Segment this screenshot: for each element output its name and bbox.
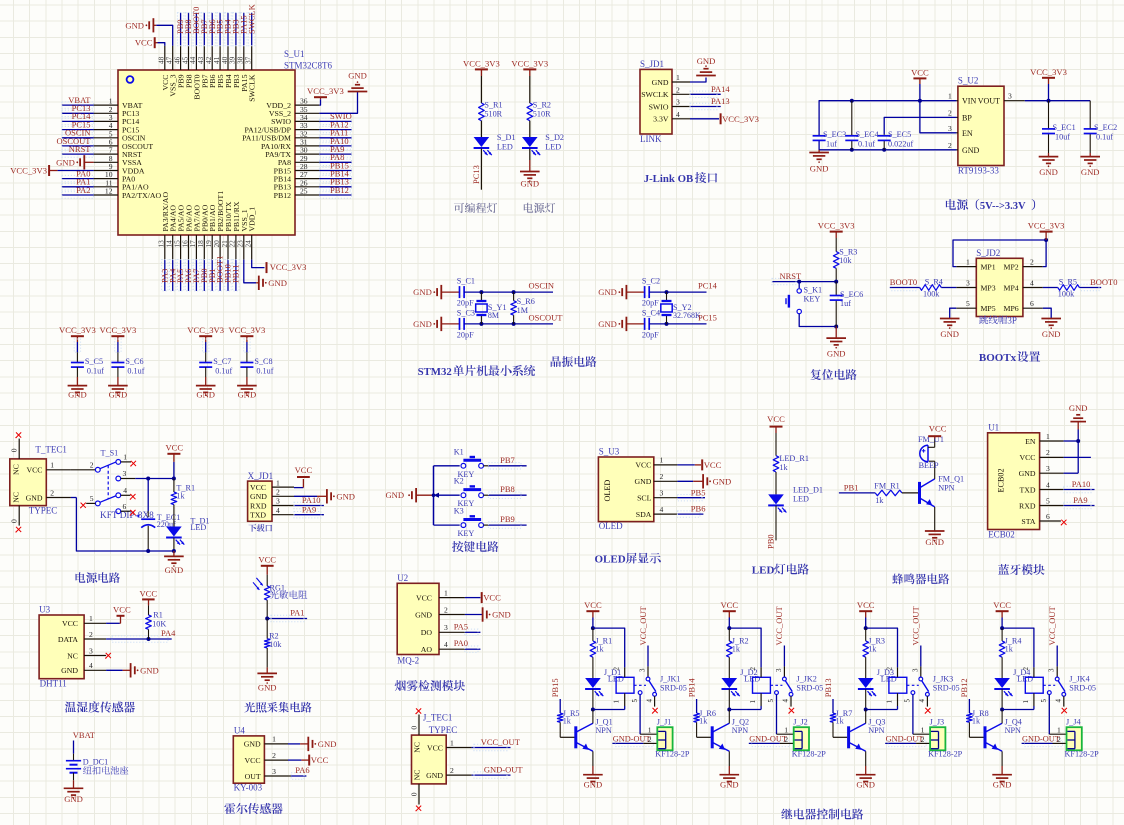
- svg-text:2: 2: [276, 488, 280, 497]
- svg-text:VCC_3V3: VCC_3V3: [187, 325, 224, 335]
- wire VCC to switch pin2: [71, 469, 95, 471]
- wire node to J_R4: [1001, 628, 1003, 641]
- power VCC_3V3 (S_R1 chain): [463, 58, 500, 69]
- wire collector (ch4): [1001, 710, 1003, 724]
- net label PA4: [167, 268, 177, 283]
- svg-text:VCC: VCC: [584, 600, 602, 610]
- svg-text:D_DC1: D_DC1: [83, 758, 108, 767]
- resistor LED_R1 1k: [773, 454, 809, 472]
- wire LED_R1 to LED_D1: [775, 472, 777, 494]
- net label PB15 (vertical, ch1): [550, 678, 560, 697]
- pin 45 PB8 (top): [180, 46, 193, 88]
- wire net PB5 (top): [217, 13, 223, 46]
- net label PB14: [330, 168, 350, 178]
- ground GND (U1 top): [1069, 403, 1088, 430]
- svg-text:3: 3: [272, 767, 276, 776]
- comment KY-003: [234, 783, 263, 793]
- svg-text:3: 3: [948, 124, 952, 133]
- net label PB9: [500, 514, 515, 524]
- svg-text:NPN: NPN: [595, 726, 611, 735]
- svg-text:12: 12: [105, 187, 113, 196]
- svg-text:VCC_3V3: VCC_3V3: [818, 221, 855, 231]
- pin 6 STA (U1): [1021, 512, 1061, 526]
- svg-text:3: 3: [89, 646, 93, 655]
- svg-text:MP1: MP1: [981, 263, 996, 272]
- svg-text:VCC: VCC: [993, 600, 1011, 610]
- svg-text:ECB02: ECB02: [988, 530, 1015, 540]
- pin 0 top (J_TEC1): [409, 715, 419, 736]
- power VCC_3V3 (VOUT): [1030, 67, 1067, 101]
- net label VCC_OUT (ch3): [911, 605, 921, 645]
- net label PA13: [711, 96, 730, 106]
- no-connect X (T_TEC1 top): [15, 432, 21, 438]
- svg-text:S_C6: S_C6: [125, 357, 143, 366]
- svg-text:MQ-2: MQ-2: [397, 656, 419, 666]
- net label GND-OUT (ch2): [749, 735, 787, 744]
- net label PB1: [844, 482, 859, 492]
- wire VCC_3V3 to S_C8: [244, 336, 250, 362]
- power VCC (T circuit): [165, 443, 183, 479]
- svg-text:VCC_3V3: VCC_3V3: [307, 86, 344, 96]
- wire MP6 to GND: [1043, 308, 1051, 318]
- power VCC_3V3 (reset): [818, 221, 855, 232]
- designator S_U3: [599, 447, 620, 457]
- wire VCC to node (relay ch4): [1000, 611, 1004, 630]
- net label VBAT (battery): [73, 730, 96, 740]
- wire net PB6: [677, 511, 703, 517]
- designator U2 (MQ-2): [397, 573, 408, 583]
- svg-text:NC: NC: [413, 770, 422, 781]
- wire PB14 to J_R6: [696, 699, 698, 713]
- pin 25 PB12 (right): [274, 187, 320, 200]
- svg-text:3: 3: [911, 668, 919, 672]
- capacitor T_EC1 220uf: [137, 479, 181, 552]
- ground GND (buzzer): [925, 531, 945, 547]
- svg-text:10K: 10K: [152, 619, 166, 628]
- svg-text:K1: K1: [454, 447, 464, 456]
- svg-text:1: 1: [885, 700, 893, 704]
- svg-text:VCC: VCC: [113, 604, 131, 614]
- svg-text:1uf: 1uf: [826, 140, 837, 149]
- power VCC_3V3 (S_C7): [187, 325, 224, 336]
- battery D_DC1: [66, 758, 128, 775]
- wire coil bottom to node (ch4): [1002, 706, 1034, 710]
- svg-text:6: 6: [123, 502, 127, 511]
- svg-text:S_R4: S_R4: [925, 278, 943, 287]
- svg-text:OSCIN: OSCIN: [529, 281, 555, 291]
- relay J_JK4 switch: [1040, 666, 1096, 702]
- ground GND (S_C3): [413, 317, 459, 331]
- push button K1 KEY: [454, 447, 484, 479]
- pin 10 PA0 (left): [94, 170, 136, 183]
- pins MP1/MP2 (S_JD2): [956, 258, 1043, 272]
- wire VCC to R1: [148, 599, 150, 615]
- svg-text:3: 3: [444, 623, 448, 632]
- svg-text:1k: 1k: [1005, 645, 1014, 654]
- svg-text:S_U1: S_U1: [284, 49, 305, 59]
- pin 4 GND (U3 DHT11): [61, 661, 106, 675]
- comment STM32C8T6: [284, 61, 333, 71]
- svg-text:MP3: MP3: [981, 284, 996, 293]
- svg-text:NRST: NRST: [780, 271, 803, 281]
- push button K3 KEY: [454, 507, 484, 539]
- svg-text:VCC_OUT: VCC_OUT: [638, 605, 648, 645]
- svg-text:3P: 3P: [1007, 315, 1017, 325]
- svg-text:GND: GND: [258, 683, 277, 693]
- svg-text:STM32: STM32: [418, 366, 452, 378]
- wire net PA9 (right): [319, 151, 351, 157]
- svg-text:VCC_3V3: VCC_3V3: [722, 114, 759, 124]
- svg-text:VCC: VCC: [704, 460, 722, 470]
- no-connect X (T_TEC1 bottom): [15, 527, 21, 533]
- pin 1 GND (U4 KY-003): [244, 735, 288, 749]
- net label OSCIN: [529, 281, 555, 291]
- designator J_TEC1: [423, 713, 453, 723]
- svg-text:1: 1: [676, 73, 680, 82]
- net label SWIO: [330, 111, 352, 121]
- svg-text:5: 5: [904, 699, 912, 703]
- pin BP (S_U2): [948, 108, 972, 122]
- net label OSCOUT: [56, 136, 91, 146]
- ground GND (S_U3): [703, 474, 731, 488]
- svg-text:2: 2: [948, 141, 952, 150]
- pin 43 PB7 (top): [196, 46, 209, 88]
- no-connect X (STA): [1061, 520, 1067, 526]
- wire J_R1 to J_D1: [592, 657, 594, 678]
- wire VCC_3V3 to S_R1: [480, 69, 482, 103]
- resistor J_R2 1k: [727, 637, 749, 658]
- svg-text:S_C3: S_C3: [457, 308, 475, 317]
- svg-text:1: 1: [276, 478, 280, 487]
- svg-text:100k: 100k: [1058, 290, 1075, 299]
- svg-text:1: 1: [921, 726, 925, 735]
- svg-text:3: 3: [1048, 668, 1056, 672]
- pin 4 PC15 (left): [94, 121, 140, 134]
- svg-text:VCC: VCC: [26, 466, 42, 475]
- svg-text:SWCLK: SWCLK: [641, 90, 669, 99]
- pin 1 VCC (U2 MQ-2): [416, 588, 465, 602]
- svg-text:PB15: PB15: [550, 678, 560, 697]
- wire R2 to GND: [266, 648, 268, 673]
- pin 33 PA12/USB/DP (right): [244, 121, 319, 134]
- pin 20 PB2/BOOT1 (bottom): [212, 191, 225, 260]
- designator U4 (KY-003): [234, 725, 245, 735]
- svg-text:FM_R1: FM_R1: [874, 482, 899, 491]
- svg-text:6: 6: [1046, 512, 1050, 521]
- svg-text:VCC: VCC: [1019, 453, 1035, 462]
- svg-text:2: 2: [89, 630, 93, 639]
- svg-text:DO: DO: [421, 628, 433, 637]
- wire S_EC4 leads: [851, 101, 853, 150]
- pin 16 PA6/AO (bottom): [180, 205, 193, 260]
- pin 2 SWCLK (S_JD1): [641, 85, 690, 99]
- wire J_D3 to collector node: [864, 689, 868, 711]
- svg-text:NC: NC: [67, 651, 78, 660]
- svg-text:GND: GND: [697, 56, 716, 66]
- svg-text:GND: GND: [140, 665, 159, 675]
- pin EN (S_U2): [948, 124, 973, 138]
- resistor J_R4 1k: [999, 637, 1021, 658]
- svg-text:OLED: OLED: [599, 521, 623, 531]
- wire coil bottom to node (ch1): [593, 706, 625, 710]
- svg-text:2: 2: [444, 605, 448, 614]
- svg-text:2: 2: [1030, 258, 1034, 267]
- net label BOOT0: [191, 7, 201, 34]
- wire contact5 to terminal (ch3): [913, 695, 930, 735]
- net label PA12: [330, 119, 349, 129]
- wire net PA0: [465, 646, 481, 652]
- svg-text:LED: LED: [793, 495, 809, 504]
- svg-text:GND: GND: [165, 565, 184, 575]
- crystal S_Y2 32.768K: [661, 292, 701, 324]
- svg-text:VCC_3V3: VCC_3V3: [59, 325, 96, 335]
- svg-text:1: 1: [660, 456, 664, 465]
- pin 2 GND (U2 MQ-2): [415, 605, 465, 619]
- pin 1 VCC (J_TEC1): [413, 738, 472, 753]
- svg-text:S_EC6: S_EC6: [840, 290, 863, 299]
- wire VCC_3V3 to S_C6: [115, 336, 121, 362]
- svg-text:1: 1: [272, 735, 276, 744]
- wire S_C1 to OSCIN: [464, 290, 553, 294]
- wire emitter to GND (ch3): [865, 751, 867, 774]
- ground GND (reset): [826, 327, 846, 359]
- svg-text:1k: 1k: [595, 645, 604, 654]
- pin 1 VBAT (left): [94, 97, 143, 110]
- svg-text:FM_Q1: FM_Q1: [938, 475, 964, 484]
- wire net PB0 (bottom): [201, 260, 207, 291]
- svg-text:VCC: VCC: [245, 756, 261, 765]
- svg-text:3: 3: [1046, 464, 1050, 473]
- wire T_R1 to T_D1: [173, 505, 175, 527]
- svg-text:J_J3: J_J3: [930, 717, 945, 726]
- net label BOOT1: [215, 256, 225, 283]
- ground GND (S_C1): [413, 285, 459, 299]
- svg-text:PB13: PB13: [823, 678, 833, 697]
- comment 下载口: [249, 524, 273, 532]
- net label PB11: [231, 264, 241, 283]
- ground GND (relay ch1): [583, 775, 603, 790]
- svg-text:STM32C8T6: STM32C8T6: [284, 61, 333, 71]
- svg-text:S_EC3: S_EC3: [823, 130, 846, 139]
- pin 2 GND (S_U3): [634, 472, 677, 486]
- svg-text:VOUT: VOUT: [978, 97, 1000, 106]
- wire net GND-OUT (J_TEC1): [472, 772, 511, 778]
- svg-text:PA10: PA10: [1072, 479, 1091, 489]
- net label PA6: [183, 269, 193, 283]
- svg-text:GND: GND: [634, 477, 651, 486]
- ground GND (bottom of MCU): [256, 276, 287, 290]
- net label NRST: [780, 271, 803, 281]
- resistor S_R1 510R: [479, 101, 503, 121]
- svg-text:MP5: MP5: [981, 304, 996, 313]
- no-connect X (J_TEC1 bottom): [415, 806, 421, 812]
- svg-text:KF128-2P: KF128-2P: [928, 750, 963, 759]
- svg-text:GND: GND: [413, 287, 432, 297]
- svg-text:VCC: VCC: [857, 600, 875, 610]
- pin 27 PB14 (right): [274, 170, 320, 183]
- connector S_JD2 body (jumper 3P): [976, 258, 1023, 316]
- svg-text:X_JD1: X_JD1: [248, 471, 274, 481]
- power VCC (relay ch1): [584, 600, 602, 611]
- pin 17 PA7/AO (bottom): [188, 205, 201, 260]
- power VCC (light sensor): [258, 555, 276, 566]
- power VCC (relay ch3): [857, 600, 875, 611]
- svg-text:LED: LED: [497, 143, 513, 152]
- net label BOOT0 (left): [890, 277, 917, 287]
- ground GND (power LED): [520, 172, 540, 189]
- svg-text:SRD-05: SRD-05: [1069, 684, 1096, 693]
- svg-text:VCC: VCC: [427, 743, 443, 752]
- capacitor S_C5 0.1uf: [71, 357, 104, 376]
- svg-text:J_JK4: J_JK4: [1069, 675, 1089, 684]
- wire DHT11 DATA to PA4: [106, 636, 172, 642]
- wire VCC to node (relay ch2): [727, 611, 731, 630]
- pin 2 GND (J_TEC1): [413, 766, 472, 781]
- wire net VCC_OUT (J_TEC1): [472, 744, 511, 750]
- net label PA1: [76, 177, 90, 187]
- ground GND (S_C7): [196, 386, 216, 400]
- capacitor S_C1 20pF: [457, 277, 475, 308]
- pin 3 GND (U1): [1019, 464, 1064, 478]
- transistor J_Q2 NPN: [712, 718, 749, 752]
- svg-text:NRST: NRST: [69, 144, 92, 154]
- svg-text:GND: GND: [348, 71, 367, 81]
- pin 44 BOOT0 (top): [188, 46, 201, 100]
- pin 32 PA11/USB/DM (right): [242, 129, 319, 142]
- svg-text:J_JK1: J_JK1: [660, 675, 680, 684]
- pin 39 PB3 (top): [228, 46, 241, 88]
- pins MP3/MP4 (S_JD2): [956, 279, 1043, 293]
- switch T_S1 KFT DIP-8X8: [90, 449, 154, 522]
- wire S_D1 to PC13: [480, 149, 482, 190]
- wire node to R2: [266, 619, 268, 639]
- wire S_U3 GND: [677, 480, 703, 482]
- svg-text:S_JD2: S_JD2: [976, 248, 1000, 258]
- svg-text:1k: 1k: [176, 492, 185, 501]
- pin 4 SDA (S_U3): [636, 505, 678, 519]
- label 烟雾检测模块: [395, 680, 465, 691]
- connector J_TEC1 body (TYPEC): [412, 735, 447, 784]
- wire emitter to GND (ch1): [592, 751, 594, 774]
- svg-text:LED: LED: [752, 565, 775, 577]
- svg-text:0: 0: [10, 519, 19, 523]
- svg-text:10k: 10k: [269, 640, 282, 649]
- pin 4 AO (U2 MQ-2): [421, 640, 465, 654]
- pin 42 PB6 (top): [204, 46, 217, 88]
- net label PB8: [500, 484, 515, 494]
- capacitor S_EC2 0.1uf: [1084, 101, 1118, 153]
- svg-text:VCC_OUT: VCC_OUT: [1047, 605, 1057, 645]
- svg-text:S_C7: S_C7: [213, 357, 231, 366]
- svg-text:VCC_OUT: VCC_OUT: [911, 605, 921, 645]
- svg-text:J_JK3: J_JK3: [933, 675, 953, 684]
- svg-text:GND: GND: [856, 780, 875, 790]
- net label GND-OUT (ch3): [886, 735, 924, 744]
- svg-text:GND: GND: [109, 390, 128, 400]
- svg-text:2: 2: [885, 667, 893, 671]
- wire J_R7 to base (ch3): [833, 722, 847, 737]
- svg-text:3: 3: [276, 497, 280, 506]
- wire net VBAT (left): [62, 102, 94, 108]
- net label PA7: [191, 269, 201, 283]
- net label PB5: [215, 19, 225, 34]
- wire S_R4 to MP3: [941, 287, 956, 289]
- svg-text:0.1uf: 0.1uf: [256, 367, 273, 376]
- pin 2 GND (X_JD1): [250, 488, 294, 502]
- pin 23 VSS_1 (bottom): [236, 209, 249, 259]
- net label PB5: [691, 487, 706, 497]
- svg-text:0.1uf: 0.1uf: [858, 140, 875, 149]
- ground GND (light sensor): [257, 673, 277, 692]
- svg-text:4: 4: [676, 110, 680, 119]
- svg-text:PC15: PC15: [698, 312, 717, 322]
- pin 30 PA9/TX (right): [265, 146, 319, 159]
- wire net NRST (left): [62, 151, 94, 157]
- capacitor S_C4 20pF: [642, 308, 660, 339]
- svg-text:3: 3: [966, 279, 970, 288]
- svg-text:2: 2: [1046, 448, 1050, 457]
- net label PA5: [175, 269, 185, 283]
- wire contact5 to terminal (ch2): [777, 695, 794, 735]
- svg-text:2: 2: [648, 735, 652, 744]
- svg-text:VCC: VCC: [135, 38, 153, 48]
- wire DHT11 GND: [106, 669, 131, 671]
- svg-text:GND: GND: [196, 390, 215, 400]
- svg-text:MP2: MP2: [1004, 263, 1019, 272]
- svg-text:37: 37: [244, 56, 253, 64]
- svg-text:PA13: PA13: [711, 96, 730, 106]
- svg-text:MP4: MP4: [1004, 284, 1019, 293]
- resistor FM_R1 1k: [874, 482, 902, 505]
- svg-text:U4: U4: [234, 725, 245, 735]
- label 温湿度传感器: [65, 701, 135, 712]
- pin 36 VDD_2 (right): [266, 97, 319, 110]
- svg-text:2: 2: [676, 85, 680, 94]
- svg-text:J_J4: J_J4: [1066, 717, 1081, 726]
- power VCC (MQ-2): [482, 592, 501, 603]
- svg-text:LED: LED: [545, 143, 561, 152]
- pin VOUT (S_U2): [978, 92, 1025, 106]
- pin1 stub + X (T_S1): [121, 461, 136, 467]
- crystal S_Y1 8M: [476, 292, 507, 324]
- svg-text:SWCLK: SWCLK: [248, 74, 257, 102]
- ground GND (S_EC2): [1080, 153, 1100, 177]
- resistor J_R3 1k: [863, 637, 885, 658]
- comment 跳线帽3P: [979, 315, 1017, 325]
- label LED灯电路: [752, 564, 809, 577]
- pin 24 VDD_1 (bottom): [244, 207, 257, 260]
- svg-text:GND: GND: [925, 537, 944, 547]
- wire contact5 to terminal (ch4): [1049, 695, 1066, 735]
- svg-text:10k: 10k: [839, 256, 852, 265]
- pin 22 PB11/RX (bottom): [228, 201, 241, 260]
- wire VDD_1 to VCC_3V3 (bottom): [252, 260, 265, 268]
- wire GND rail: [819, 140, 956, 151]
- net label PA0: [76, 168, 90, 178]
- svg-text:PB7: PB7: [500, 455, 515, 465]
- net label PC13: [72, 103, 91, 113]
- connector S_U3 body (OLED): [598, 457, 653, 522]
- wire 3.3V to VCC_3V3: [690, 118, 719, 120]
- label 光照采集电路: [244, 702, 311, 713]
- relay J_JK2 SRD-05 coil: [749, 667, 770, 707]
- label J-Link OB接口: [644, 172, 718, 185]
- wire S_C6 to GND: [117, 367, 119, 386]
- svg-text:GND: GND: [336, 491, 355, 501]
- svg-text:VIN: VIN: [962, 97, 976, 106]
- wire pin47 to GND: [156, 25, 173, 45]
- svg-text:S_EC5: S_EC5: [888, 130, 911, 139]
